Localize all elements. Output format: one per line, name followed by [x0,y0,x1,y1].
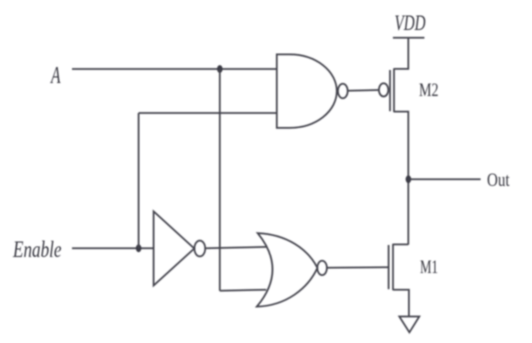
wire inverter output to NOR top input [206,247,267,248]
node junction on Enable wire [136,244,142,252]
node Out junction [406,175,412,183]
transistor M1 channel bar [392,244,394,290]
NAND gate U1 body [277,54,337,128]
NAND gate U1 output bubble [338,84,348,99]
transistor M1 source terminal to ground [393,290,409,317]
wire horizontal to NAND bottom input [139,112,277,114]
NOR gate U3 output bubble [317,261,327,275]
wire Out [408,178,480,180]
svg-text:VDD: VDD [395,10,426,35]
wire NAND output to M2 gate [348,89,379,92]
inverter U2 output bubble [194,241,205,257]
transistor M2 channel bar [393,68,395,112]
transistor M1 gate bar [388,245,390,289]
svg-text:Out: Out [487,170,510,191]
transistor M1 drain terminal [393,243,408,245]
ground symbol [399,317,419,333]
wire Enable input to inverter [72,247,154,249]
transistor M2 drain terminal down to Out rail [394,112,408,245]
transistor M2 gate bubble [379,83,388,96]
wire vertical from A junction down [219,69,221,291]
inverter U2 triangle [154,211,195,285]
transistor M2 source terminal to VDD [394,38,408,69]
svg-text:Enable: Enable [12,237,61,262]
wire NOR output to M1 gate [327,266,389,269]
svg-text:A: A [50,63,61,89]
wire vertical from Enable junction up [138,113,140,248]
wire A input to NAND top input [72,68,277,70]
transistor M2 gate bar [389,70,391,111]
NOR gate U3 body [257,233,318,307]
power VDD bar [393,37,425,39]
svg-text:M1: M1 [420,257,438,278]
wire horizontal to NOR bottom input [220,290,266,291]
node junction on A wire [217,65,223,73]
svg-text:M2: M2 [419,80,439,101]
